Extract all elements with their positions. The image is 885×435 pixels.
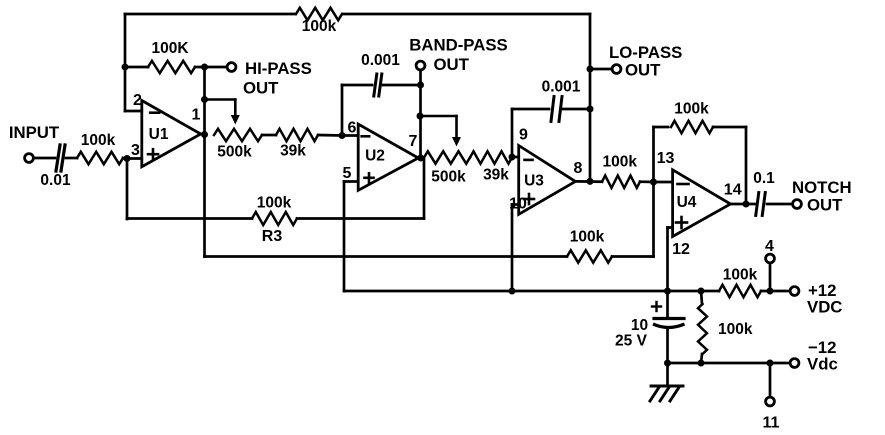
wire hp vertical	[203, 67, 206, 135]
wire 39k to pin6	[318, 134, 342, 137]
svg-text:4: 4	[765, 238, 774, 255]
notch terminal NOTCH OUT	[793, 200, 802, 209]
svg-text:NOTCH: NOTCH	[792, 178, 852, 197]
wire pin5 stub	[344, 180, 358, 183]
wire between	[262, 134, 276, 137]
pot2 wiper arrow	[420, 115, 457, 118]
node bias cap junction	[664, 288, 671, 295]
node pot1 tap	[201, 96, 208, 103]
svg-text:VDC: VDC	[807, 298, 842, 317]
wire fb left	[125, 66, 148, 69]
wire hp-notch left	[205, 255, 568, 258]
svg-text:2: 2	[133, 92, 142, 109]
wire top rail	[125, 13, 295, 16]
svg-text:25 V: 25 V	[615, 333, 648, 350]
pot1 wiper arrow	[205, 98, 236, 101]
+12 VDC terminal	[790, 287, 799, 296]
node lp cap junction	[587, 106, 594, 113]
svg-text:6: 6	[348, 120, 357, 137]
op-amp U3	[519, 146, 576, 215]
pin 4 terminal	[766, 254, 775, 263]
svg-text:13: 13	[657, 150, 675, 167]
node pin 11 junction	[767, 360, 774, 367]
svg-text:0.001: 0.001	[361, 52, 400, 69]
hi-pass terminal HI-PASS OUT	[227, 63, 236, 72]
band-pass terminal BAND-PASS OUT	[416, 61, 425, 70]
wire pin9 stub	[512, 156, 519, 159]
svg-text:HI-PASS: HI-PASS	[245, 59, 312, 78]
resistor 100k bias divider	[701, 291, 702, 304]
wire input to C1	[34, 157, 56, 160]
wire C1 to R1	[66, 157, 77, 160]
svg-text:100k: 100k	[602, 154, 637, 171]
wire pin3 down	[126, 159, 129, 220]
resistor 39k a	[276, 129, 318, 141]
capacitor 0.001 U3	[511, 109, 514, 157]
wire R1 to node3	[123, 157, 127, 160]
svg-text:7: 7	[409, 133, 418, 150]
wire node3 to U1	[127, 157, 142, 160]
wire pin 2 stub	[125, 110, 142, 113]
pin 11 terminal	[766, 397, 775, 406]
node pin10 bias	[509, 288, 516, 295]
svg-text:0.1: 0.1	[753, 170, 775, 187]
resistor 100k plus12	[719, 285, 761, 297]
wire U4 out	[731, 203, 755, 206]
svg-text:8: 8	[574, 160, 583, 177]
resistor 500k b	[424, 151, 470, 163]
input terminal INPUT	[25, 154, 34, 163]
svg-text:R3: R3	[262, 228, 283, 245]
wire pin11 down	[769, 363, 772, 397]
svg-text:100k: 100k	[570, 229, 605, 246]
capacitor 0.001 U2	[341, 85, 344, 136]
svg-text:9: 9	[519, 127, 528, 144]
resistor 39k b	[470, 151, 512, 163]
resistor 100K	[148, 61, 195, 73]
wire R3 left	[127, 217, 252, 220]
svg-text:0.01: 0.01	[40, 172, 71, 189]
wire pin6 stub	[342, 134, 358, 137]
wire lo-pass stub	[590, 68, 612, 71]
wire to +12 terminal	[761, 290, 790, 293]
resistor 100k u3-u4	[602, 176, 640, 188]
resistor 500k a	[214, 129, 262, 141]
svg-text:1: 1	[192, 107, 201, 124]
wire bp vertical	[419, 70, 422, 158]
wire pin10 stub	[512, 203, 519, 206]
svg-text:3: 3	[131, 142, 140, 159]
wire pin13 stub	[654, 181, 673, 184]
wire fb to hi-pass	[195, 66, 228, 69]
capacitor 0.1	[756, 193, 759, 216]
node U4 output pin 14	[743, 201, 750, 208]
wire lp vertical	[589, 14, 592, 181]
node lo-pass tap	[587, 66, 594, 73]
capacitor 0.01	[56, 145, 60, 171]
svg-text:100k: 100k	[723, 267, 758, 284]
node pin 9	[509, 154, 516, 161]
lo-pass terminal LO-PASS OUT	[612, 65, 621, 74]
svg-text:100k: 100k	[674, 101, 709, 118]
node feedback left	[122, 64, 129, 71]
svg-text:12: 12	[672, 241, 690, 258]
node U1 output pin 1	[201, 131, 208, 138]
svg-text:100k: 100k	[302, 18, 337, 35]
node pin 3	[124, 155, 131, 162]
resistor 100k R3	[252, 212, 297, 225]
resistor 100k input	[77, 152, 123, 164]
node bias divider top	[698, 288, 705, 295]
node hp top	[201, 64, 208, 71]
node pot2 tap	[417, 113, 424, 120]
svg-text:100K: 100K	[151, 40, 189, 57]
svg-text:BAND-PASS: BAND-PASS	[409, 36, 508, 55]
wire R3 right	[297, 217, 424, 220]
wire bias rail	[344, 290, 719, 293]
-12 Vdc terminal	[790, 359, 799, 368]
resistor 100k hp-notch	[567, 250, 612, 262]
svg-text:Vdc: Vdc	[807, 355, 838, 374]
svg-text:U1: U1	[149, 126, 169, 143]
svg-text:500k: 500k	[217, 144, 252, 161]
svg-text:11: 11	[763, 415, 780, 432]
node U3 output pin 8	[587, 178, 594, 185]
node ground junction	[664, 360, 671, 367]
wire cap bottom lead	[666, 328, 669, 364]
wire hp-notch vertical	[203, 135, 206, 257]
wire cap top lead	[666, 291, 669, 318]
svg-text:100k: 100k	[718, 321, 753, 338]
svg-text:OUT: OUT	[434, 55, 470, 74]
wire U3 out	[575, 180, 602, 183]
svg-text:39k: 39k	[483, 167, 509, 184]
node pin 4 junction	[767, 288, 774, 295]
svg-text:100k: 100k	[81, 132, 116, 149]
op-amp U1	[142, 101, 201, 167]
svg-text:U2: U2	[365, 148, 385, 165]
node U2 output pin 7	[417, 155, 424, 162]
wire to ground	[666, 363, 669, 386]
node bias divider bottom	[698, 360, 705, 367]
op-amp U4	[673, 170, 731, 237]
svg-text:14: 14	[724, 182, 742, 199]
svg-text:OUT: OUT	[625, 61, 661, 80]
wire hp-notch right	[612, 255, 654, 258]
wire -12 line	[668, 362, 791, 365]
wire pin4 up	[769, 263, 772, 291]
svg-text:LO-PASS: LO-PASS	[609, 43, 682, 62]
capacitor 10uF 25V	[654, 317, 684, 320]
svg-text:OUT: OUT	[243, 79, 279, 98]
wire pin12 stub	[668, 226, 673, 229]
svg-text:U4: U4	[677, 194, 697, 211]
svg-text:39k: 39k	[280, 143, 306, 160]
svg-text:OUT: OUT	[807, 196, 843, 215]
U4 feedback 100k	[652, 127, 655, 182]
svg-text:10: 10	[631, 317, 648, 334]
resistor 100k top	[296, 8, 342, 20]
node bp cap junction	[417, 82, 424, 89]
wire left vertical	[124, 14, 127, 111]
ground symbol	[651, 385, 683, 388]
svg-text:0.001: 0.001	[542, 79, 581, 96]
op-amp U2	[358, 124, 418, 190]
svg-text:100k: 100k	[257, 195, 292, 212]
svg-text:U3: U3	[524, 173, 544, 190]
wire to notch	[767, 203, 793, 206]
svg-text:5: 5	[343, 165, 352, 182]
node pin 6	[339, 132, 346, 139]
wire to pin13	[640, 180, 654, 183]
svg-text:500k: 500k	[431, 169, 466, 186]
svg-text:INPUT: INPUT	[9, 123, 60, 142]
node pin 13	[650, 179, 657, 186]
